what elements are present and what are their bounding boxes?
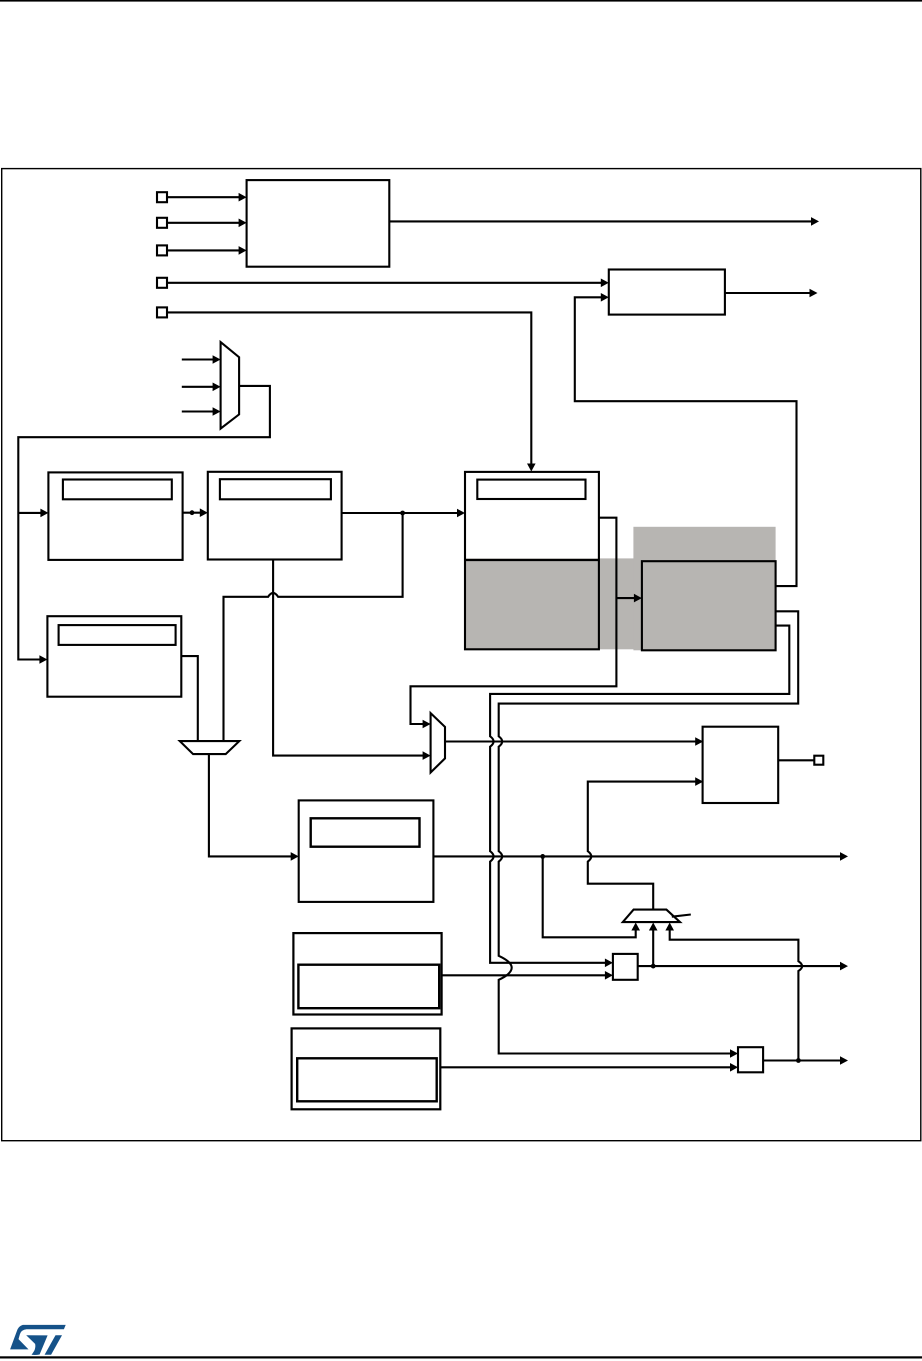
- junction dot on G output: [540, 854, 545, 859]
- wire ETR to block F top: [167, 312, 531, 466]
- block M capture/compare register 2 (double box): [292, 1028, 441, 1109]
- arrowhead into block G: [291, 852, 299, 861]
- arrowhead mux U4 input 3: [665, 923, 674, 931]
- arrowhead into block I input 2: [695, 777, 703, 786]
- wire mux U1 input 2: [182, 386, 216, 388]
- wire block L output to block J input 2: [442, 974, 609, 976]
- block L inner register: [298, 965, 439, 1009]
- wire TI3 to block A: [167, 249, 242, 251]
- page footer rule: [0, 1356, 922, 1358]
- pin square TI4: [157, 278, 167, 288]
- arrowhead into block D: [200, 508, 208, 517]
- wire branch block K output to mux U4 input 3 (with hop): [670, 928, 802, 1061]
- mux U1 (input select, right-pointing trapezoid): [221, 342, 240, 429]
- arrowhead into block A input 3: [239, 246, 247, 255]
- arrowhead block G output end: [840, 852, 848, 861]
- block M inner register: [297, 1058, 437, 1101]
- arrowhead mux U3 input 1: [423, 720, 431, 729]
- block D shadow register: [220, 479, 331, 499]
- pin square TI3: [157, 245, 167, 255]
- wire block A output: [389, 220, 814, 222]
- pin square ETR: [157, 307, 167, 317]
- ST logo T bar: [45, 1335, 62, 1355]
- wire branch to block H left: [616, 597, 637, 599]
- arrowhead block K output end: [840, 1056, 848, 1065]
- ST logo S middle stroke: [26, 1335, 47, 1355]
- block C prescaler register: [48, 472, 182, 560]
- wire mux U3 output to block I input 1: [445, 740, 699, 742]
- arrowhead into block B input 2: [601, 293, 609, 302]
- wire mux U4 output to block I input 2 (with hop): [588, 782, 699, 910]
- arrowhead block J output end: [840, 962, 848, 971]
- wire block C to block D: [183, 512, 203, 514]
- block D prescaler counter: [208, 472, 342, 560]
- wire mux U2 output to block G: [209, 754, 294, 856]
- junction dot on J output: [651, 964, 656, 969]
- arrowhead block A output: [811, 217, 819, 226]
- pin square TI2: [157, 218, 167, 228]
- arrowhead into block C: [40, 509, 48, 518]
- arrowhead mux U1 input 3: [213, 407, 221, 416]
- block G shadow register: [311, 818, 420, 846]
- junction dot between C and D: [190, 510, 195, 515]
- arrowhead mux U3 input 2: [423, 751, 431, 760]
- block E shadow register: [59, 625, 176, 645]
- arrowhead into block I input 1: [695, 737, 703, 746]
- wire block D bottom to mux U3 input 2: [273, 560, 426, 756]
- block F shadow register: [477, 480, 585, 499]
- wire mux U1 input 3: [182, 410, 216, 412]
- arrowhead into block A input 2: [239, 219, 247, 228]
- mux U2 (downward trapezoid above auto-reload path): [180, 741, 240, 754]
- wire block M output to block K input 2: [440, 1066, 733, 1068]
- wire block D output down to mux U2 (with hop): [224, 513, 403, 741]
- gray shadow patch left (under counter block): [465, 558, 637, 649]
- arrowhead mux U4 input 1: [631, 923, 640, 931]
- arrowhead mux U4 input 2: [649, 923, 658, 931]
- wire block G output: [433, 855, 843, 857]
- figure frame: [2, 169, 921, 1141]
- block H repetition counter (gray): [642, 561, 776, 650]
- block J comparator 1: [613, 954, 638, 980]
- arrowhead into block B input 1: [601, 279, 609, 288]
- wire block F right to mux U3 input 1: [411, 518, 617, 724]
- wire mux U1 input 1: [182, 358, 216, 360]
- wire branch block J output to mux U4 input 2: [652, 927, 654, 966]
- block B slave mode controller: [609, 270, 725, 315]
- wire TI1 to block A: [167, 196, 242, 198]
- ST logo swoosh: [10, 1325, 66, 1350]
- arrowhead into block A input 1: [239, 193, 247, 202]
- wire TI2 to block A: [167, 222, 242, 224]
- wire mux U1 output to blocks C and E: [18, 386, 270, 660]
- block A trigger controller (top): [247, 180, 390, 267]
- arrowhead mux U1 input 1: [213, 355, 221, 364]
- mux U3 (clock select, right-pointing trapezoid): [431, 713, 445, 772]
- wire block D to block F: [342, 512, 460, 514]
- junction dot on K output: [796, 1058, 801, 1063]
- arrowhead into block F left: [457, 509, 465, 518]
- mux U4 select tick: [672, 915, 691, 917]
- junction dot on D-F wire: [400, 511, 405, 516]
- arrowhead into block K input 1: [730, 1049, 738, 1058]
- wire block E output to mux U2: [181, 656, 198, 741]
- block I output control: [703, 727, 779, 803]
- page top rule: [0, 0, 922, 2]
- mux U4 (TRGO select, upward trapezoid): [623, 910, 680, 923]
- block C shadow register: [63, 480, 172, 500]
- arrowhead into block K input 2: [730, 1063, 738, 1072]
- wire branch to block C: [18, 512, 44, 514]
- wire block J output: [638, 965, 844, 967]
- wire branch block G output to mux U4 input 1: [543, 856, 636, 937]
- wire block B input 2 from block H: [575, 297, 797, 586]
- arrowhead into block J input 2: [605, 971, 613, 980]
- block F counter CNT: [465, 472, 599, 649]
- block G auto-reload register: [299, 800, 434, 902]
- wire block K output: [763, 1059, 843, 1061]
- block L capture/compare register 1 (double box): [293, 933, 441, 1014]
- arrowhead mux U1 input 2: [213, 383, 221, 392]
- wire block H output inner to block J input 1 (with hops): [490, 626, 789, 963]
- wire block B output: [725, 292, 813, 294]
- arrowhead into block H: [634, 594, 642, 603]
- arrowhead into block J input 1: [605, 959, 613, 968]
- wire block I output to pin: [778, 759, 814, 761]
- arrowhead into block E: [39, 655, 47, 664]
- arrowhead block B output: [810, 289, 818, 298]
- wire TI4 to block B: [167, 282, 604, 284]
- block E capture register: [47, 616, 181, 697]
- arrowhead into block F top: [527, 464, 536, 472]
- pin square output (right of block I): [814, 756, 823, 765]
- gray shadow patch right (under repetition block): [633, 527, 775, 651]
- block K comparator 2: [738, 1047, 763, 1072]
- block F separator line: [465, 559, 599, 561]
- wire block H output outer to block K input 1 (with hops): [499, 611, 799, 1053]
- pin square TI1: [157, 192, 167, 202]
